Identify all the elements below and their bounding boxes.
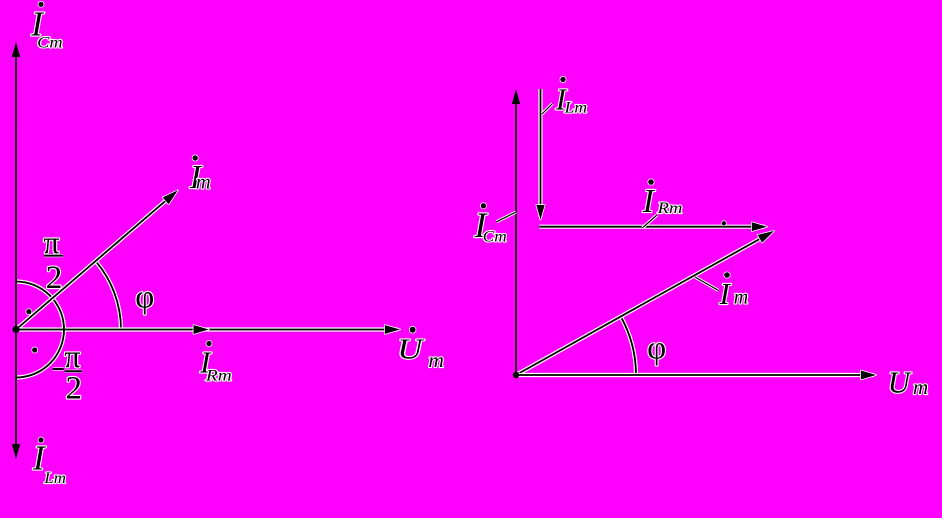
svg-text:2: 2 (66, 370, 83, 406)
label I_Rm (left) (199, 341, 232, 385)
right diagram: horizontal axis U_m (wire) (516, 371, 876, 380)
svg-text:I: I (719, 276, 732, 311)
svg-text:π: π (64, 338, 80, 374)
label -pi/2 (lower) (53, 338, 82, 406)
right diagram: vertical axis (wire) (512, 89, 520, 375)
label I_Rm (right) (642, 179, 683, 220)
svg-text:m: m (196, 171, 211, 193)
svg-text:Rm: Rm (205, 368, 232, 385)
label pi/2 (upper) (43, 224, 63, 296)
right diagram: angle arc phi (621, 317, 636, 376)
svg-text:U: U (888, 365, 913, 400)
svg-text:Lm: Lm (43, 470, 66, 487)
svg-text:φ: φ (647, 331, 666, 367)
svg-text:2: 2 (46, 260, 63, 296)
label I_Cm (top left) (30, 2, 62, 52)
left diagram: horizontal axis U_m (wire) (16, 325, 400, 334)
label I_Lm (bottom left) (32, 437, 66, 487)
label I_m (left) (189, 155, 211, 196)
left diagram: angle arc phi (96, 261, 121, 329)
leader line to I_Rm label (643, 215, 657, 228)
left diagram: angle marker dot lower (-pi/2) (32, 347, 37, 352)
label U_m (left, with overdot) (397, 327, 444, 372)
svg-text:m: m (734, 286, 748, 308)
label I_Lm (right) (555, 77, 587, 117)
label I_Cm (right) (473, 203, 506, 245)
leader line to I_Lm label (542, 104, 553, 115)
svg-text:m: m (913, 375, 928, 399)
right diagram: vector I_m (wire) (516, 231, 774, 375)
svg-text:m: m (428, 348, 444, 372)
left diagram: angle marker dot upper (+pi/2) (26, 309, 31, 314)
svg-text:Cm: Cm (483, 228, 507, 245)
left diagram: vertical axis I_Cm / I_Lm (wire) (12, 42, 21, 459)
wire: semicircle segment at axis crossing (63, 324, 65, 334)
leader line to I_Cm label (497, 212, 517, 222)
svg-text:Rm: Rm (657, 200, 683, 217)
right diagram: vector I_Rm (wire) (539, 222, 767, 231)
svg-text:Lm: Lm (563, 99, 587, 116)
left diagram: vector I_m (wire) (16, 190, 178, 329)
label I_m (right) (719, 272, 749, 311)
left diagram: origin node (12, 326, 19, 333)
label U_m (right) (888, 365, 929, 400)
svg-text:Cm: Cm (37, 34, 62, 51)
right diagram: vector I_Lm (wire, downward) (536, 89, 544, 220)
svg-text:φ: φ (135, 279, 154, 315)
right diagram: origin node (513, 372, 519, 378)
leader line to I_m label (695, 277, 719, 291)
left diagram: pi/2 semicircle arc around origin (16, 282, 64, 378)
svg-text:U: U (397, 333, 425, 364)
right diagram: dot marker on I_Rm (722, 221, 726, 225)
svg-text:I: I (642, 183, 656, 220)
